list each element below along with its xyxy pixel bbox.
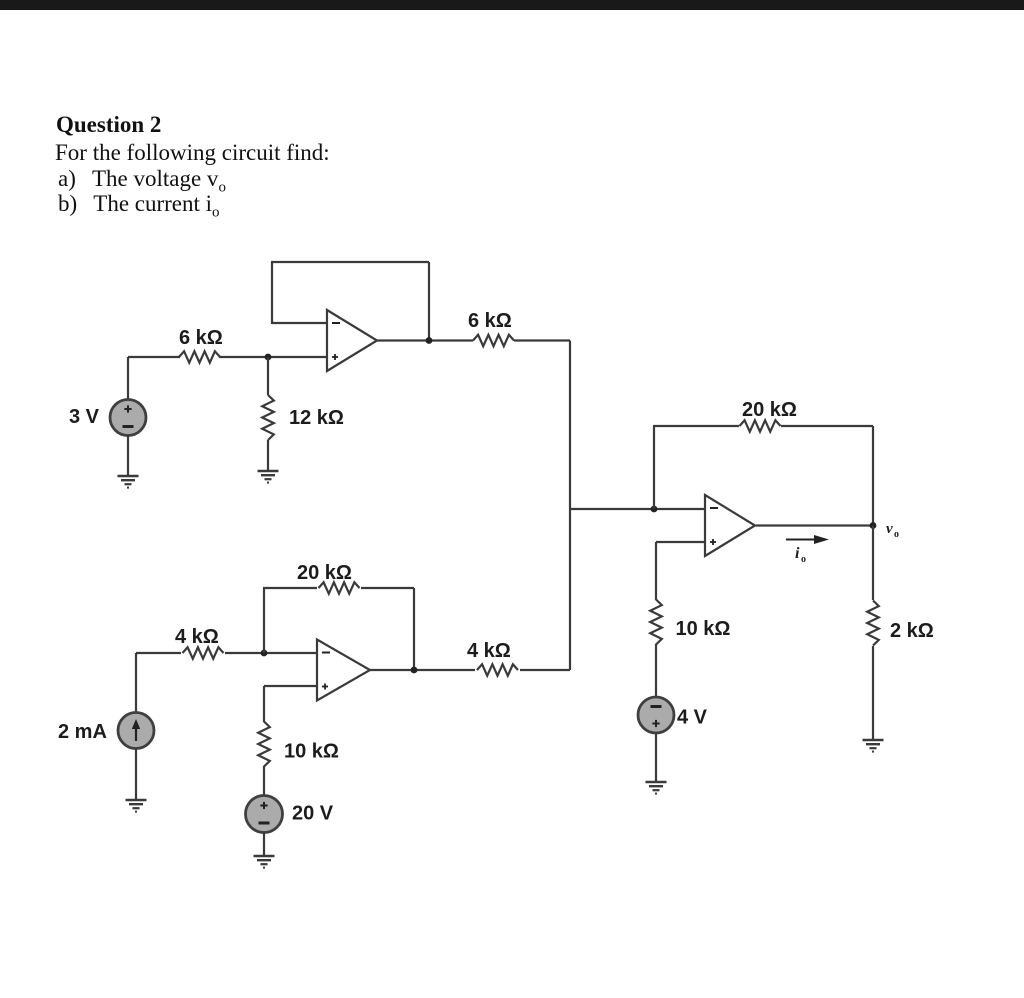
svg-text:4 kΩ: 4 kΩ	[175, 626, 219, 648]
node E junction dot (U3-)	[651, 506, 658, 513]
label R7 4 k&#937;	[467, 640, 511, 662]
wire 2mA top	[135, 653, 137, 713]
svg-text:4 V: 4 V	[677, 707, 708, 729]
wire R1 to U1 plus input	[219, 356, 327, 358]
op-amp U2	[317, 640, 370, 701]
label R8 20 k&#937;	[742, 399, 797, 421]
wire 2mA source to R4	[136, 652, 181, 654]
voltage source V3 4V circle	[638, 697, 674, 733]
voltage source V2 20V circle	[246, 796, 283, 833]
resistor R3 6k zigzag	[473, 335, 514, 346]
svg-text:2 kΩ: 2 kΩ	[890, 620, 934, 642]
svg-text:v: v	[886, 521, 893, 537]
node C junction dot (R4/R5/U2-)	[261, 650, 268, 657]
node D junction dot (U2 out)	[411, 667, 418, 674]
svg-text:4 kΩ: 4 kΩ	[467, 640, 511, 662]
svg-text:20 kΩ: 20 kΩ	[297, 562, 352, 584]
V3 plus sign on bottom	[652, 720, 659, 727]
svg-text:10 kΩ: 10 kΩ	[676, 618, 731, 640]
resistor R10 2k zigzag	[867, 601, 879, 646]
wire 3V source to R1	[128, 356, 180, 358]
svg-text:o: o	[801, 554, 806, 565]
wire node A down to R2	[267, 357, 269, 395]
wire U2 feedback left vertical	[263, 588, 265, 653]
wire vo node down to R10	[872, 526, 874, 601]
label R4 4 k&#937;	[175, 626, 219, 648]
label R3 6 k&#937;	[468, 310, 512, 332]
wire U3 output to vo node	[756, 524, 873, 526]
question item a	[58, 166, 226, 192]
label V1 3 V	[69, 406, 100, 428]
wire U3 feedback top-right	[781, 425, 873, 427]
svg-text:2 mA: 2 mA	[58, 721, 107, 743]
svg-text:3 V: 3 V	[69, 406, 100, 428]
svg-text:12 kΩ: 12 kΩ	[289, 407, 344, 429]
io current arrow	[786, 535, 829, 544]
wire U2 feedback top-right	[361, 587, 414, 589]
V2 minus sign	[259, 822, 270, 825]
resistor R5 20k zigzag	[319, 582, 360, 593]
label R1 6 k&#937;	[179, 327, 223, 349]
I1 arrow up	[132, 719, 140, 741]
wire 3V top	[127, 357, 129, 400]
svg-text:o: o	[894, 529, 899, 540]
resistor R4 4k zigzag	[183, 647, 224, 658]
wire U3 plus input horizontal	[656, 541, 705, 543]
label vo	[886, 521, 899, 540]
wire U3 plus down to R9	[655, 542, 657, 600]
ground under V2	[254, 856, 275, 868]
V1 plus sign	[124, 405, 131, 412]
wire R7 to vertical bus	[520, 669, 570, 671]
wire U1 feedback top	[271, 261, 429, 263]
ground under I1	[126, 800, 147, 812]
label I1 2 mA	[58, 721, 107, 743]
resistor R2 12k zigzag	[262, 395, 274, 440]
svg-text:6 kΩ: 6 kΩ	[179, 327, 223, 349]
wire R2 to ground	[267, 440, 269, 471]
wire V1 to ground	[127, 436, 129, 477]
wire R6 to 20V source	[263, 766, 265, 796]
wire U1 feedback left-horizontal to minus input	[272, 322, 327, 324]
svg-text:20 kΩ: 20 kΩ	[742, 399, 797, 421]
wire V2 to ground	[263, 833, 265, 857]
wire U1 feedback right vertical	[428, 262, 430, 340]
op-amp U1	[327, 310, 377, 371]
node A junction dot (R1/R2/U1+)	[265, 354, 272, 361]
wire R10 to ground	[872, 646, 874, 740]
label R9 10 k&#937;	[676, 618, 731, 640]
question text heading	[56, 112, 161, 138]
label V2 20 V	[292, 803, 334, 825]
ground under R10	[863, 740, 884, 752]
wire U2 feedback top-left	[263, 587, 317, 589]
resistor R7 4k zigzag	[477, 664, 518, 675]
resistor R6 10k zigzag	[258, 722, 270, 767]
resistor R8 20k zigzag	[740, 420, 781, 431]
resistor R9 10k zigzag	[650, 600, 662, 645]
top black bar	[0, 0, 1024, 10]
label io	[795, 545, 806, 565]
label R2 12 k&#937;	[289, 407, 344, 429]
resistor R1 6k zigzag	[179, 351, 220, 362]
svg-text:20 V: 20 V	[292, 803, 334, 825]
question line 1	[55, 140, 330, 166]
wire bus to U3 minus input	[570, 508, 705, 510]
op-amp U3	[705, 495, 755, 556]
wire U2 feedback right vertical	[413, 588, 415, 670]
wire U2 plus down to R6	[263, 686, 265, 722]
wire U2 plus input horizontal	[264, 685, 317, 687]
voltage source V1 3V circle	[110, 400, 146, 436]
label R10 2 k&#937;	[890, 620, 934, 642]
ground under R2	[258, 471, 279, 483]
label V3 4 V	[677, 707, 708, 729]
wire U3 feedback right vertical	[872, 426, 874, 525]
wire U3 feedback left vertical	[653, 426, 655, 509]
ground under V3	[646, 782, 667, 794]
current source I1 2mA circle	[118, 713, 154, 749]
wire U1 output to R3	[376, 339, 473, 341]
wire U2 output to R7	[370, 669, 475, 671]
svg-text:10 kΩ: 10 kΩ	[284, 741, 339, 763]
node B junction dot (U1 out)	[426, 337, 433, 344]
wire I1 to ground	[135, 749, 137, 801]
wire U3 feedback top-left	[653, 425, 739, 427]
wire V3 to ground	[655, 733, 657, 782]
wire U1 feedback left vertical	[271, 262, 273, 324]
question item b	[58, 191, 220, 217]
label R6 10 k&#937;	[284, 741, 339, 763]
V3 minus sign on top	[651, 705, 662, 708]
V1 minus sign	[123, 425, 134, 428]
svg-text:i: i	[795, 545, 800, 562]
svg-text:6 kΩ: 6 kΩ	[468, 310, 512, 332]
wire R9 to 4V source	[655, 644, 657, 697]
ground under V1	[118, 476, 139, 488]
wire R3 to vertical bus	[514, 339, 570, 341]
V2 plus sign	[260, 802, 267, 809]
node F junction dot (vo)	[870, 522, 877, 529]
wire vertical bus x570	[569, 341, 571, 671]
wire R4 to U2 minus input	[225, 652, 317, 654]
label R5 20 k&#937;	[297, 562, 352, 584]
